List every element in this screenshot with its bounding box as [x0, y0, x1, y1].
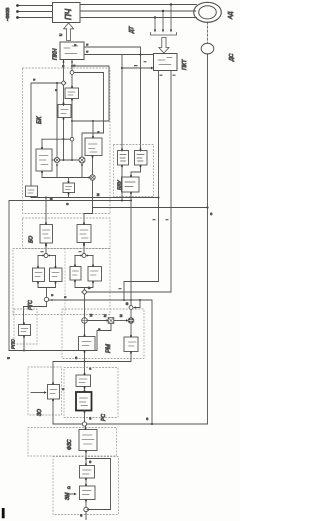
wire PKN out2 right then down to BVU box A [84, 54, 154, 56]
svg-text:ω: ω [88, 460, 92, 463]
wire angle signal into PKT with arrow [122, 67, 152, 69]
node multiplier 0 [54, 157, 59, 162]
node phase B terminal [16, 10, 19, 13]
block RTS dashed container [13, 249, 110, 315]
svg-text:ДС: ДС [229, 53, 235, 62]
block BVU unit C [122, 177, 140, 192]
block RTS unit F [50, 268, 63, 282]
node dot x152 y424 [151, 423, 153, 425]
wire branch y72.5 right then down [74, 73, 104, 134]
wire C-feedback left leg [31, 83, 64, 186]
wire phase B [18, 11, 53, 13]
arrowhead on x72 wire into PKN [71, 60, 73, 63]
svg-text:u: u [32, 79, 36, 81]
frequency converter PCh [53, 3, 81, 23]
wire left arm down [37, 256, 39, 269]
svg-text:M: M [119, 314, 123, 317]
block small unit 1b [63, 183, 75, 193]
svg-text:a: a [96, 131, 100, 133]
wire x72 down through box [71, 74, 73, 88]
svg-text:i: i [165, 219, 169, 220]
block BO dashed container [23, 218, 111, 249]
svg-text:M: M [89, 314, 93, 317]
wire phase A [18, 5, 53, 7]
node sum circle 2 RM [128, 318, 134, 324]
wire bus arrow up into mult1 [81, 165, 83, 178]
connector nubs at box terminals [23, 86, 141, 502]
wire W bottom to mult2 [92, 156, 94, 175]
wire PKN third output down [71, 60, 73, 71]
block cos unit [36, 149, 52, 171]
svg-text:ЗМ: ЗМ [65, 492, 71, 500]
wire Q down to circle5 [85, 500, 87, 508]
wire PKN left bottom feed to diamond [63, 60, 65, 81]
block ZO unit K [48, 385, 60, 400]
svg-text:u: u [73, 44, 77, 46]
node dot after circle3 [51, 299, 53, 301]
wire DT tap 1 [154, 18, 156, 31]
PKT interior marks [158, 58, 172, 65]
node multiplier 2 [90, 175, 95, 180]
block RM unit L [79, 337, 96, 351]
block small limiter on C-wire [26, 186, 38, 197]
wire x42 down into cos box [41, 139, 43, 149]
wire bus down into unit 1b [68, 178, 70, 184]
wire BVU A output down long [121, 165, 123, 201]
block ZO dashed container [28, 367, 62, 415]
wire circle3 down to RPS [24, 302, 47, 325]
block BVU unit A [118, 151, 129, 166]
wire staircase up to sq-mult [97, 323, 111, 350]
node dot x63.5 y160 [63, 159, 65, 161]
svg-text:u: u [50, 294, 54, 296]
node phase C terminal [16, 16, 19, 19]
wire omega bus y177.5 [42, 177, 89, 179]
wire sum to box O [85, 426, 87, 429]
svg-text:ω: ω [74, 356, 78, 359]
node dot x140 y300 [139, 299, 141, 301]
svg-text:i: i [118, 288, 122, 289]
node tap phase A for DT [170, 3, 172, 5]
node branch circle 1 [44, 254, 48, 258]
wire PCh output phase B to motor [80, 10, 196, 12]
big hollow arrow PKN to PCh [64, 23, 74, 41]
wire long feedback H1 y197.5 [31, 197, 159, 199]
block small unit in BK 1a [65, 88, 79, 99]
motor AD rotor circle [199, 6, 217, 19]
svg-text:ω: ω [125, 302, 129, 305]
wire long horizontal RC y424 [53, 423, 208, 425]
wire M-hat vertical into circle4 [130, 201, 132, 306]
block RC unit M [76, 375, 91, 387]
block ZM unit P [80, 466, 95, 479]
wire BO2 down to branch node [83, 243, 85, 254]
wire mult0 output up to C-wire tap [56, 84, 58, 157]
wire sq mult to sum2 arrow [114, 320, 127, 322]
wire RPS out down to y350.5 [23, 336, 25, 351]
wire L down through y361.5 to box M [84, 351, 86, 376]
wire rejoin to diamond2 [84, 288, 86, 290]
coordinate converter PKN [60, 42, 84, 60]
node dot x84.5 y361.5 [84, 361, 86, 363]
shaft dashed link AD to DS [207, 22, 209, 43]
node dot H2 x132 [130, 200, 132, 202]
node tap phase B for DT [162, 10, 164, 12]
wire speed feedback H3 y207.5 [84, 208, 208, 225]
wire mult0 to mult1 [60, 159, 79, 161]
wire N down to sum circle [84, 411, 86, 422]
wire PKT output ib vertical x171 [170, 71, 172, 293]
svg-text:ω: ω [209, 212, 213, 215]
svg-text:u: u [72, 65, 76, 67]
wire circle3 long output y300 [49, 300, 152, 424]
svg-text:ψ: ψ [49, 198, 53, 200]
scan artifact black bar [2, 508, 5, 518]
svg-text:u: u [85, 44, 89, 46]
coordinate converter PKT [154, 54, 178, 71]
svg-text:ПКН: ПКН [53, 48, 59, 60]
node dot ZM loop branch [85, 458, 87, 460]
wire branch2 right down [92, 256, 94, 267]
block ZM dashed container [53, 457, 119, 515]
block ZM unit Q [80, 486, 96, 500]
wire circle5 down out [85, 512, 87, 520]
svg-text:ДТ: ДТ [129, 25, 135, 34]
svg-text:ω: ω [79, 514, 83, 517]
wire rejoin to circle3 [46, 288, 48, 298]
wire limiter to H1 [30, 197, 32, 198]
wire K down to RC line [52, 399, 54, 424]
node summing circle in BK [70, 71, 74, 75]
svg-text:ЗО: ЗО [37, 409, 43, 416]
block RM dashed container [62, 309, 144, 359]
wire bus arrow up into mult0 [56, 165, 58, 178]
node junction on x122 wire [121, 67, 123, 69]
wire O down to ZM [85, 451, 87, 466]
node sum circle 3 [44, 297, 48, 301]
wire PKT output ia vertical x158.5 [124, 71, 159, 301]
block BVU unit B [135, 151, 148, 166]
svg-text:АД: АД [228, 11, 234, 20]
svg-text:u: u [7, 357, 11, 359]
node circle 4 [129, 306, 133, 310]
node circle x72 y139 [70, 137, 74, 141]
wire diamond2 down to sum1 [84, 295, 86, 318]
wire sum1 to sq mult arrow [87, 320, 107, 322]
wire branch y66 right [72, 66, 109, 121]
svg-text:БО: БО [29, 236, 35, 243]
block RC regulator N thick [76, 392, 92, 411]
wire DS long vertical [207, 54, 209, 424]
wire flux feedback y292 to x171 [87, 291, 171, 293]
node phase A terminal [16, 4, 19, 7]
svg-text:РС: РС [101, 414, 107, 421]
svg-text:РПС: РПС [11, 339, 16, 349]
wire mult2 down [92, 180, 94, 213]
wire BO1 down to branch node [45, 243, 47, 254]
wire y121 from x72 to x109 [72, 120, 109, 122]
dashed divider inside RTS [64, 249, 66, 314]
wire long H y350.5 [9, 350, 97, 352]
wire G H rejoin [75, 280, 93, 288]
node dot on y83 [56, 82, 58, 84]
svg-text:u: u [61, 65, 65, 67]
wire 1b down to H1 [68, 193, 70, 198]
wire phase C [18, 17, 53, 19]
block RPS regulator J [19, 325, 31, 336]
wire cos box bottom down [41, 171, 43, 178]
node dot x72 y121 [71, 120, 73, 122]
wire ZM feedback loop [86, 459, 111, 510]
wire branch1 left arm [38, 255, 44, 257]
block BVU dashed container [114, 145, 154, 197]
wire into BO box1 [45, 198, 47, 225]
svg-text:ω: ω [145, 417, 149, 420]
node dot x131 y300 [130, 299, 132, 301]
wire circle down to mult row [71, 141, 73, 160]
block RTS unit E [33, 268, 45, 282]
wire I down then left y361.5 [53, 352, 131, 385]
node sum circle 1 RM [82, 318, 88, 324]
node square multiplier RM [108, 318, 114, 324]
node dot x93 y121 [92, 120, 94, 122]
wire y139 horizontal [42, 138, 70, 140]
svg-text:φ: φ [65, 203, 69, 205]
svg-text:M: M [96, 193, 100, 196]
tiny annotation marks scattered (signal sub/superscripts) [32, 44, 213, 517]
block RTS unit G [70, 267, 81, 281]
speed sensor DS circle [201, 43, 214, 54]
node diamond 2 [82, 289, 87, 294]
wire sum1 down to box L [84, 323, 86, 336]
node branch circle 2 [82, 254, 86, 258]
wire branch1 right arm [49, 255, 56, 257]
node dot x124 y300 [123, 299, 125, 301]
svg-text:i: i [159, 75, 163, 76]
wire branch2 left arm [75, 255, 82, 257]
wire long feedback H2 y200.5 [9, 201, 131, 351]
node dot H2 x122 [121, 200, 123, 202]
wire DT tap 3 [170, 5, 172, 31]
svg-text:i: i [40, 251, 44, 252]
svg-text:ψ: ψ [87, 287, 91, 289]
node tap phase C for DT [154, 16, 156, 18]
node dot DS branch [206, 206, 208, 208]
motor AD stator circle [194, 2, 222, 22]
wire x93 down into box W [92, 121, 94, 138]
node sum circle 5 [84, 507, 88, 511]
node dot below BO1 [45, 245, 47, 247]
wire jog into circle4 [135, 300, 140, 308]
svg-text:~380В: ~380В [5, 8, 10, 21]
wire from 1a down [71, 99, 73, 138]
svg-text:БВУ: БВУ [118, 180, 124, 190]
svg-text:i: i [143, 61, 147, 62]
svg-text:ФЗС: ФЗС [67, 439, 73, 450]
node dot H1 x158.5 [158, 197, 160, 199]
svg-text:ω: ω [88, 417, 92, 420]
svg-text:i: i [78, 251, 82, 252]
wire DT tap 2 [162, 11, 164, 30]
wire circle4 to sum2 [130, 309, 132, 317]
wire omega setpoint arrow into Q [66, 493, 75, 495]
block RM unit I [124, 337, 138, 352]
wire M to N [84, 387, 86, 393]
wire P to Q [85, 478, 87, 486]
node dot on x72 [71, 65, 73, 67]
node dot below BO2 [83, 244, 85, 246]
svg-text:БК: БК [37, 116, 43, 124]
node dot x24 y350.5 [23, 350, 25, 352]
wire sum2 down to box I [130, 323, 132, 337]
wire PCh output phase C to motor [80, 17, 197, 19]
PKN interior marks [64, 46, 78, 54]
svg-text:Ω: Ω [67, 486, 71, 489]
wire right arm down [55, 256, 57, 269]
block W sin unit [85, 138, 102, 156]
block RPS dashed container [14, 309, 37, 344]
wire branch2 right arm [87, 255, 94, 257]
node dot x63.5 y139 [63, 138, 65, 140]
node diamond on x63.5 [61, 81, 66, 86]
wire ZO setpoint arrow [31, 392, 45, 394]
block RC dashed container [64, 368, 118, 418]
big hollow arrow DT to PKT [159, 38, 169, 54]
wire E down and rejoin [38, 282, 56, 288]
wire branch2 left down [74, 256, 76, 267]
wire BVU C output down [130, 192, 132, 201]
wire from box2 down [63, 118, 65, 160]
svg-text:u: u [85, 51, 89, 53]
block BO unit 1 [40, 225, 53, 244]
wire BVU B output to unit C [131, 165, 141, 177]
wire PCh output phase A to motor [80, 4, 197, 6]
block small unit in BK 2 [58, 105, 71, 118]
node sum circle on y424 [82, 422, 86, 426]
wire cos box right to mult0 [52, 159, 54, 161]
wire diamond down into box 2 [63, 85, 65, 105]
block BK dashed container [23, 68, 111, 214]
current sensor DT bracket [151, 33, 177, 36]
svg-text:РТС: РТС [28, 300, 34, 310]
block BO unit 2 [77, 225, 91, 243]
svg-text:U: U [59, 33, 63, 36]
block FZS unit O [79, 430, 97, 451]
svg-text:i: i [152, 219, 156, 220]
svg-text:РМ: РМ [106, 344, 112, 353]
node dot H1 x46 [45, 197, 47, 199]
svg-text:ПКТ: ПКТ [182, 59, 188, 70]
svg-text:в: в [97, 328, 101, 330]
block FZS dashed container [28, 428, 117, 457]
svg-text:i: i [134, 65, 138, 66]
svg-text:ПЧ: ПЧ [64, 8, 73, 20]
svg-text:i: i [172, 75, 176, 76]
node multiplier 1 [79, 157, 85, 163]
wire PKN out1 right then down to BVU box B [84, 47, 141, 151]
block RTS unit H [88, 267, 102, 282]
wire y133 left [82, 133, 104, 157]
